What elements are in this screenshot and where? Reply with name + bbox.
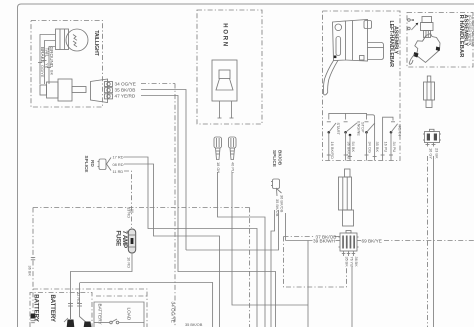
horn terminal left	[214, 137, 222, 160]
svg-text:BK/OB: BK/OB	[277, 150, 282, 166]
wire 36 BK/OB splice leg	[271, 210, 275, 327]
svg-text:39 BK/WH: 39 BK/WH	[313, 238, 335, 243]
tall plug connector	[339, 169, 354, 226]
label 35 BK/OB bottom	[185, 322, 203, 327]
svg-text:HORN: HORN	[221, 23, 227, 48]
svg-text:BK: BK	[49, 70, 54, 76]
label start	[336, 123, 341, 136]
wire 76 YE/RD down	[351, 266, 353, 327]
label 34 OG/YE	[115, 82, 136, 87]
pin ticks	[342, 253, 355, 255]
wire 69 BK/YE	[357, 240, 361, 242]
svg-text:40 PU: 40 PU	[230, 162, 235, 173]
label 35 BK sw	[375, 142, 380, 153]
taillight bulb	[56, 29, 89, 51]
label 39 BK/WH	[313, 238, 335, 243]
svg-text:SPLICE: SPLICE	[272, 150, 277, 167]
wire 37 BK/OB	[284, 236, 341, 238]
svg-text:ASSEMBLY: ASSEMBLY	[392, 26, 398, 54]
svg-text:SPLICE: SPLICE	[84, 156, 89, 173]
battery box dash-dot	[30, 293, 92, 327]
svg-text:TAILLIGHT: TAILLIGHT	[93, 30, 99, 56]
svg-text:17 RD: 17 RD	[113, 155, 124, 160]
svg-text:54 BK: 54 BK	[351, 142, 356, 153]
svg-text:47 YE/RD: 47 YE/RD	[115, 94, 136, 99]
long dash-dot wire 36 BK vertical left	[30, 208, 35, 323]
r handlebar plug	[421, 17, 434, 38]
svg-text:35: 35	[344, 257, 349, 261]
label 36 BK/OB sw	[346, 142, 351, 160]
horn label	[221, 23, 227, 48]
wire 35 BK/OB splice leg	[186, 210, 279, 250]
taillight label	[93, 30, 99, 56]
svg-text:BATTERY: BATTERY	[33, 294, 40, 321]
label horn sw	[397, 125, 402, 137]
r handlebar mid plug	[424, 76, 435, 108]
label 10 RD	[127, 257, 132, 268]
label 47 YE/RD	[115, 94, 136, 99]
left handlebar control drawing	[323, 20, 383, 95]
svg-text:7 AMP: 7 AMP	[121, 231, 128, 249]
switch wire end ticks	[327, 155, 393, 157]
wire 69 BK/YE dash-dot to edge	[384, 240, 474, 242]
label 34 OG sw	[367, 142, 372, 153]
svg-text:16 GY: 16 GY	[428, 148, 433, 159]
label 35 BK/OB	[115, 88, 136, 93]
ticks 36 BK	[31, 258, 35, 260]
svg-text:36 BK: 36 BK	[28, 266, 33, 277]
label 69 BK/YE	[362, 238, 382, 243]
svg-text:13 RD: 13 RD	[127, 207, 132, 218]
svg-text:34 PU: 34 PU	[392, 142, 397, 153]
svg-text:34 OG/YE: 34 OG/YE	[115, 82, 136, 87]
label 23 BK	[434, 148, 439, 159]
label 08 RD	[113, 162, 124, 167]
wire 35 BK/OB from taillight	[141, 90, 186, 251]
battery positive wire	[77, 283, 91, 327]
label ground	[47, 47, 54, 76]
wire brake (bulb to plug)	[40, 35, 56, 85]
2-pin connector stubs	[426, 143, 436, 147]
label 36 BK/OB splice	[280, 195, 285, 213]
label 54 BK sw	[351, 142, 356, 153]
load box dash-dot top	[96, 295, 147, 297]
horn symbol	[212, 60, 237, 101]
svg-text:35 BK/OB: 35 BK/OB	[115, 88, 136, 93]
fuse body	[128, 229, 135, 253]
wire ground (bulb to plug)	[49, 47, 56, 85]
light switch	[365, 122, 375, 161]
long dash-dot wire vertical right	[249, 208, 251, 327]
battery label	[33, 294, 56, 322]
svg-text:ASSEMBLY: ASSEMBLY	[463, 14, 469, 46]
wire 34 OG/YE vertical	[174, 84, 176, 327]
svg-text:16 PU: 16 PU	[384, 142, 389, 153]
battery inner label	[98, 304, 103, 326]
svg-text:10 RD: 10 RD	[127, 257, 132, 268]
wire 08 RD (splice to maze)	[124, 164, 220, 327]
wire 11 RD (splice to fuse)	[124, 171, 132, 228]
svg-text:BK: BK	[344, 262, 349, 268]
horn box	[197, 10, 262, 124]
label 16 GY	[428, 148, 433, 159]
switch mid stem	[345, 113, 347, 119]
label 35 BK/OB splice	[275, 199, 280, 217]
start switch	[327, 122, 336, 134]
label brake	[38, 47, 45, 78]
wire 37 BK/OB dash-dot loop	[284, 237, 347, 288]
svg-text:FUSE: FUSE	[115, 231, 122, 247]
taillight assembly box	[31, 21, 103, 108]
wire 17 RD (splice to maze)	[124, 157, 257, 327]
wire tail (bulb to plug)	[45, 41, 56, 85]
wire 39 BK/WH vertical	[307, 241, 309, 327]
wire 39 BK/WH	[286, 213, 341, 241]
engine stop switch	[344, 122, 357, 137]
wire 34 OG/YE horizontal	[141, 83, 175, 85]
svg-text:STOP: STOP	[360, 122, 365, 133]
svg-text:34 OG: 34 OG	[367, 142, 372, 153]
wire r handlebar dash-dot	[427, 156, 429, 327]
svg-text:34 OG/YE: 34 OG/YE	[170, 302, 175, 323]
pin labels	[344, 257, 359, 268]
connector pin stubs	[344, 251, 354, 256]
horn terminal right	[229, 137, 237, 160]
svg-text:RD: RD	[90, 160, 95, 167]
r handlebar 2-pin connector	[423, 129, 441, 142]
tick 13 RD	[130, 210, 134, 212]
horn leads	[218, 101, 234, 118]
svg-text:START: START	[336, 123, 341, 136]
start switch wire	[328, 132, 330, 160]
wire fuse to battery	[71, 253, 133, 319]
svg-text:BK: BK	[354, 262, 359, 268]
svg-text:GROUND: GROUND	[49, 47, 54, 68]
r handlebar assembly label	[458, 14, 474, 57]
label 13 RD	[127, 207, 132, 218]
wire r handlebar solid	[433, 156, 435, 327]
svg-text:36: 36	[354, 257, 359, 261]
label 17 RD	[113, 155, 124, 160]
svg-text:BATTERY: BATTERY	[49, 295, 56, 322]
svg-text:18 GN: 18 GN	[216, 162, 221, 173]
label 16 PU sw	[384, 142, 389, 153]
svg-text:11 RD: 11 RD	[113, 169, 124, 174]
bk/ob splice label	[272, 150, 283, 167]
svg-text:08 RD: 08 RD	[113, 162, 124, 167]
battery load box	[94, 302, 144, 327]
engine stop wires	[346, 132, 350, 160]
switch top bus	[329, 113, 367, 119]
svg-text:35 BK/OB: 35 BK/OB	[275, 199, 280, 217]
dash-dot wire to load box	[33, 289, 147, 327]
svg-text:23 BK: 23 BK	[434, 148, 439, 159]
fuse label	[115, 231, 128, 249]
wire 47 YE/RD from taillight	[141, 96, 276, 327]
battery negative wire	[64, 302, 74, 327]
long dash-dot wire 32 RD horizontal	[33, 207, 250, 209]
taillight socket plug	[40, 79, 86, 101]
left handlebar assembly box	[323, 11, 401, 161]
svg-text:TAIL: TAIL	[45, 48, 50, 58]
svg-text:76: 76	[349, 257, 354, 261]
label 37 BK/OB	[316, 235, 337, 240]
svg-text:LOAD: LOAD	[126, 308, 131, 321]
wire horn right (to maze)	[232, 172, 308, 305]
r handlebar assembly box	[407, 13, 473, 68]
rd splice label	[84, 156, 95, 173]
label 16 BK/RD	[330, 142, 335, 159]
r brake lever drawing	[409, 34, 440, 65]
label 40 PU	[230, 162, 235, 173]
rd splice symbol	[98, 158, 112, 171]
taillight filaments	[73, 35, 77, 47]
dimmer switch	[383, 117, 398, 160]
label tail	[43, 48, 50, 69]
label 34 PU sw	[392, 142, 397, 153]
bk/ob splice symbol	[271, 179, 282, 196]
svg-text:69 BK/YE: 69 BK/YE	[362, 238, 382, 243]
4-pin connector	[339, 231, 359, 252]
label 36 BK	[28, 266, 33, 277]
svg-text:35 BK/OB: 35 BK/OB	[185, 322, 203, 327]
wire battery positive to load	[80, 283, 213, 327]
svg-text:16 BK/RD: 16 BK/RD	[330, 142, 335, 159]
load switch	[94, 319, 144, 324]
load label	[126, 308, 131, 321]
light switch outer wire	[367, 115, 375, 161]
left handlebar assembly label	[388, 21, 398, 68]
taillight harness connector	[91, 79, 113, 103]
label 32 RD	[76, 292, 81, 303]
label 18 GN	[216, 162, 221, 173]
wire horn left (to maze)	[218, 172, 266, 327]
svg-text:35 BK: 35 BK	[375, 142, 380, 153]
r handlebar switch	[408, 19, 419, 30]
svg-text:32 RD: 32 RD	[76, 292, 81, 303]
label engine stop	[357, 121, 366, 136]
label 11 RD	[113, 169, 124, 174]
label 34 OG/YE bottom	[170, 302, 175, 323]
svg-text:HORN: HORN	[397, 125, 402, 137]
